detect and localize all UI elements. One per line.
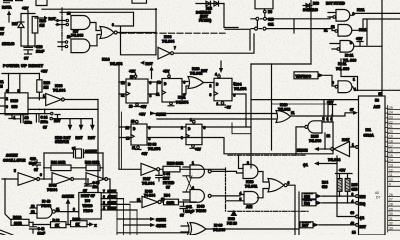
svg-text:OSCILLATOR: OSCILLATOR <box>3 159 26 163</box>
svg-text:IC14: IC14 <box>102 58 109 62</box>
svg-text:IC16: IC16 <box>11 99 18 103</box>
wire or out <box>204 82 215 84</box>
wire vertical x311 <box>310 0 312 64</box>
svg-text:1M: 1M <box>40 24 45 28</box>
flip-flop IC14/2 <box>126 79 148 103</box>
wire vertical bus x119 <box>118 66 120 169</box>
inverter IC37 mirrored <box>334 142 350 157</box>
svg-text:6: 6 <box>6 105 8 109</box>
svg-text:28: 28 <box>389 203 393 207</box>
svg-text:3k3: 3k3 <box>322 185 328 189</box>
corner shape bottom-left <box>0 230 13 235</box>
nand-gate IC21b <box>338 25 352 37</box>
wire caps rail <box>0 113 50 115</box>
node KBD RST arrows <box>70 119 92 126</box>
capacitor C42 <box>30 222 37 233</box>
svg-text:555: 555 <box>12 105 18 109</box>
svg-text:IC6: IC6 <box>85 199 90 203</box>
svg-text:38: 38 <box>379 92 383 96</box>
inverter IC43b <box>52 173 71 186</box>
nor-gate IC28out <box>268 179 284 192</box>
svg-text:R94: R94 <box>164 194 170 198</box>
cpu right pin rows <box>385 108 388 161</box>
svg-text:100n: 100n <box>41 120 48 124</box>
label RST row1 <box>140 61 145 65</box>
svg-text:25: 25 <box>389 106 393 110</box>
svg-text:14: 14 <box>389 159 393 163</box>
svg-text:14: 14 <box>352 231 356 235</box>
svg-text:3: 3 <box>181 136 183 140</box>
svg-text:1: 1 <box>217 102 219 106</box>
svg-text:+5V: +5V <box>142 152 149 156</box>
svg-text:2MHZ: 2MHZ <box>108 201 117 205</box>
wire S21 to gates <box>267 17 334 19</box>
svg-text:33: 33 <box>389 227 393 231</box>
svg-text:21: 21 <box>389 125 393 129</box>
wire nand out to vidproc box <box>55 211 79 213</box>
svg-text:74LS08: 74LS08 <box>71 34 83 38</box>
svg-text:9: 9 <box>389 183 391 187</box>
svg-text:RST: RST <box>146 62 154 66</box>
wire ff1-ff2 <box>148 82 162 94</box>
power rail 555 <box>2 73 39 75</box>
svg-text:+5V: +5V <box>139 113 146 117</box>
wire vertical from junction <box>155 9 157 55</box>
gate inputs arrows <box>56 21 66 25</box>
svg-text:4: 4 <box>352 200 354 204</box>
wire link vertical <box>224 4 238 28</box>
nor-gate IC14a <box>100 27 114 39</box>
svg-text:R85: R85 <box>352 183 358 187</box>
label VIDPROC <box>294 72 318 79</box>
svg-text:5: 5 <box>323 117 325 121</box>
wire and1 out <box>90 23 100 31</box>
wire nand4 out <box>341 59 400 90</box>
wire inverter out to link <box>174 34 255 53</box>
svg-text:29: 29 <box>389 207 393 211</box>
wire nand1 out <box>351 13 400 15</box>
wire long bus y99.6 <box>251 99 358 101</box>
svg-text:IC1: IC1 <box>366 128 372 132</box>
wire nand3 out <box>355 45 383 47</box>
nand-gate IC21c <box>340 41 354 53</box>
wire bottom long <box>117 232 189 234</box>
svg-text:6: 6 <box>40 173 42 177</box>
timer IC16 555 <box>9 74 20 93</box>
node 8MHZ 4MHZ arrows <box>117 219 150 225</box>
wire mhz verticals <box>117 193 137 235</box>
svg-text:10: 10 <box>131 120 135 124</box>
capacitor C41 <box>183 201 185 203</box>
svg-text:FITTED): FITTED) <box>199 19 211 23</box>
svg-text:1: 1 <box>353 78 355 82</box>
svg-text:IC25: IC25 <box>311 135 318 139</box>
svg-text:R126 100R: R126 100R <box>167 162 184 166</box>
svg-text:16MHZ: 16MHZ <box>62 195 75 199</box>
svg-text:RST: RST <box>201 69 207 73</box>
svg-text:11: 11 <box>137 198 141 202</box>
svg-text:74S04: 74S04 <box>47 188 57 192</box>
wire inverter out left NMCE <box>319 148 331 150</box>
inverter row3 <box>141 163 157 175</box>
svg-text:M: M <box>0 85 3 89</box>
svg-text:NT: NT <box>0 27 4 31</box>
svg-text:3: 3 <box>210 93 212 97</box>
link pins RST <box>51 112 53 114</box>
svg-text:IC40: IC40 <box>197 205 204 209</box>
svg-text:FITTED: FITTED <box>163 181 175 185</box>
svg-text:IC29: IC29 <box>280 103 287 107</box>
svg-text:3K3: 3K3 <box>352 188 358 192</box>
svg-text:NMI: NMI <box>360 195 366 199</box>
svg-text:+5V: +5V <box>339 169 346 173</box>
svg-text:S20: S20 <box>268 18 274 22</box>
svg-text:74LS04: 74LS04 <box>328 158 340 162</box>
svg-text:8: 8 <box>73 208 75 212</box>
svg-text:VIDPROC: VIDPROC <box>296 74 312 78</box>
wire feedback via R102 <box>5 179 11 220</box>
xor-gate IC36 <box>188 223 207 236</box>
wire node <box>21 45 35 47</box>
node RST cpu <box>300 222 313 228</box>
svg-text:10: 10 <box>130 75 134 79</box>
svg-text:R31 820R: R31 820R <box>51 161 66 165</box>
svg-text:1MHZ: 1MHZ <box>156 113 167 117</box>
ground 0V <box>25 53 32 55</box>
svg-text:NOT: NOT <box>163 177 170 181</box>
node NMI <box>302 193 316 199</box>
svg-text:74LS74: 74LS74 <box>176 101 188 105</box>
svg-text:IRQ: IRQ <box>304 202 310 206</box>
svg-text:NOT FITTED: NOT FITTED <box>326 2 345 6</box>
nand-gate IC25 74LS30 mirrored <box>308 121 322 133</box>
svg-text:IC31: IC31 <box>178 96 185 100</box>
svg-text:100R: 100R <box>167 201 175 205</box>
inverter IC33a <box>46 94 62 106</box>
wire or2 out to cpu pin37 <box>291 113 354 116</box>
keyboard box outline <box>60 12 134 26</box>
wire ff3 out <box>232 94 246 127</box>
svg-text:1MHZ: 1MHZ <box>108 207 117 211</box>
svg-text:IC33: IC33 <box>164 35 171 39</box>
node 1MHZ arrow <box>150 111 156 115</box>
wire vertical right <box>381 0 383 96</box>
svg-text:RST: RST <box>360 225 366 229</box>
svg-text:VIDEO: VIDEO <box>83 204 93 208</box>
svg-text:19pF: 19pF <box>38 232 45 236</box>
ground ff2 <box>170 102 173 105</box>
and-gate IC7a <box>71 16 90 30</box>
inverter IC43a <box>18 173 37 186</box>
wire keyboard box corner <box>225 29 250 50</box>
wire box top feed <box>97 188 99 193</box>
svg-text:40: 40 <box>351 222 355 226</box>
svg-text:D17: D17 <box>12 22 18 26</box>
connector box S-links top <box>255 0 273 9</box>
cpu IC1 6502A box <box>359 96 386 235</box>
svg-text:2: 2 <box>247 161 249 165</box>
svg-text:1: 1 <box>352 143 354 147</box>
wire row1 to or-gate lines <box>152 113 276 115</box>
svg-text:11: 11 <box>56 208 60 212</box>
capacitor C44 <box>156 172 162 181</box>
svg-text:16: 16 <box>389 149 393 153</box>
svg-text:5: 5 <box>14 169 16 173</box>
svg-text:5: 5 <box>103 201 105 205</box>
svg-text:3: 3 <box>350 41 352 45</box>
svg-text:16MHZ: 16MHZ <box>6 154 18 158</box>
svg-text:10: 10 <box>389 178 393 182</box>
videoproc box <box>79 193 101 220</box>
svg-text:74LS04: 74LS04 <box>142 182 154 186</box>
svg-text:RST: RST <box>49 17 57 21</box>
svg-text:IC 30: IC 30 <box>148 143 156 147</box>
wire ff5 out <box>202 126 251 128</box>
svg-text:2: 2 <box>210 84 212 88</box>
svg-text:31: 31 <box>389 217 393 221</box>
svg-text:IRQ: IRQ <box>360 202 366 206</box>
svg-text:+5V: +5V <box>22 7 29 11</box>
svg-text:PROC: PROC <box>84 209 94 213</box>
svg-text:S21: S21 <box>268 23 274 27</box>
svg-text:5: 5 <box>332 81 334 85</box>
svg-text:PIN 10: PIN 10 <box>227 222 237 226</box>
svg-text:74LS74: 74LS74 <box>148 147 160 151</box>
wire nand2 out <box>353 19 400 30</box>
svg-text:C13: C13 <box>30 157 36 161</box>
svg-text:D5: D5 <box>268 10 272 14</box>
svg-text:RST: RST <box>54 119 60 123</box>
connector box top edge mid <box>132 0 147 3</box>
svg-text:R13: R13 <box>44 81 50 85</box>
svg-text:8: 8 <box>112 23 114 27</box>
wire ff2 out to or <box>182 82 188 95</box>
wire nor out down <box>287 185 295 235</box>
svg-text:1M: 1M <box>44 86 49 90</box>
diode D11 D12 pair <box>196 3 224 5</box>
wire vertical RST bus <box>97 100 99 193</box>
capacitor C10 <box>24 46 33 54</box>
svg-text:15: 15 <box>389 154 393 158</box>
wire feedback left <box>2 178 18 180</box>
wire rst arrows feed <box>52 118 92 120</box>
flip-flop IC30b <box>193 120 196 123</box>
wire ff1 inputs <box>119 82 126 94</box>
section divider dash-dot vertical <box>61 8 63 50</box>
svg-text:SWITCH: SWITCH <box>55 140 69 144</box>
svg-text:27: 27 <box>389 198 393 202</box>
wire 555 out <box>28 97 46 99</box>
resistor R13 <box>37 80 42 92</box>
svg-text:8: 8 <box>150 94 152 98</box>
pin labels 8-1MHZ <box>101 193 137 210</box>
svg-text:12: 12 <box>31 210 35 214</box>
and-gate IC7b <box>71 39 90 53</box>
svg-text:17: 17 <box>389 144 393 148</box>
wire nor out <box>117 32 156 34</box>
and-gate IC28b <box>244 192 258 205</box>
svg-text:13: 13 <box>129 105 133 109</box>
svg-text:1: 1 <box>190 118 192 122</box>
svg-text:IC28: IC28 <box>192 67 199 71</box>
and-gate IC28a <box>243 165 258 179</box>
capacitor C24 <box>36 114 39 122</box>
svg-text:1: 1 <box>327 117 329 121</box>
svg-text:1N4148: 1N4148 <box>2 42 14 46</box>
wire S21 branch to divider <box>293 19 295 33</box>
wire inverter out <box>64 99 98 101</box>
diode D17 <box>20 14 22 47</box>
svg-text:74LS74: 74LS74 <box>234 87 246 91</box>
resistor R20 <box>32 17 38 34</box>
svg-text:74LS51: 74LS51 <box>245 185 257 189</box>
top edge text fragments <box>3 0 23 3</box>
svg-text:74S00: 74S00 <box>196 209 206 213</box>
svg-text:13: 13 <box>67 12 71 16</box>
svg-text:+5V: +5V <box>41 70 48 74</box>
wire cross coupling <box>186 176 192 192</box>
svg-text:IC34: IC34 <box>234 83 241 87</box>
svg-text:POWER UP RESET: POWER UP RESET <box>3 63 44 68</box>
svg-text:21: 21 <box>0 80 4 84</box>
svg-text:D13: D13 <box>313 2 319 6</box>
connector box top edge left <box>36 0 47 6</box>
svg-text:11: 11 <box>156 93 160 97</box>
svg-text:4MHZ: 4MHZ <box>108 195 117 199</box>
inverter IC43c <box>86 173 105 186</box>
svg-text:RST: RST <box>88 136 96 140</box>
node IRQ <box>302 200 316 206</box>
svg-text:10: 10 <box>67 35 71 39</box>
svg-text:23: 23 <box>389 116 393 120</box>
wire stub x232 <box>232 123 251 134</box>
wire 555 pin right <box>28 108 98 110</box>
svg-text:AIN: AIN <box>246 205 253 209</box>
svg-text:8MHZ: 8MHZ <box>108 189 117 193</box>
svg-text:RST: RST <box>76 136 84 140</box>
svg-text:ϕ2: ϕ2 <box>360 216 365 220</box>
wire ic25 input verticals <box>322 100 333 122</box>
svg-text:74LS04: 74LS04 <box>53 89 65 93</box>
svg-text:IC37: IC37 <box>342 138 349 142</box>
wire long verticals <box>250 64 252 168</box>
wire osc nodes <box>44 153 103 179</box>
wire bottom rail <box>33 224 89 226</box>
svg-text:8MHZ: 8MHZ <box>156 218 167 222</box>
svg-text:R20: R20 <box>40 19 46 23</box>
node RST arrow <box>35 17 44 19</box>
dash divider horizontal <box>120 32 225 34</box>
svg-text:39: 39 <box>351 211 355 215</box>
svg-text:−5V: −5V <box>225 106 232 110</box>
svg-text:20: 20 <box>389 130 393 134</box>
svg-text:32: 32 <box>389 222 393 226</box>
svg-text:11: 11 <box>291 111 295 115</box>
svg-text:12: 12 <box>331 25 335 29</box>
diode D13 <box>303 4 312 8</box>
svg-text:0V: 0V <box>24 57 29 61</box>
flip-flop IC31 <box>162 79 182 103</box>
svg-text:IC 21: IC 21 <box>338 62 346 66</box>
svg-text:IC21: IC21 <box>357 8 364 12</box>
svg-text:R32 820R: R32 820R <box>85 161 100 165</box>
wire RSTA arrow up <box>8 14 10 22</box>
svg-text:+5V: +5V <box>195 148 202 152</box>
svg-text:74 S04: 74 S04 <box>144 194 155 198</box>
svg-text:4: 4 <box>215 73 217 77</box>
svg-text:R84: R84 <box>322 181 328 185</box>
svg-text:100n: 100n <box>25 121 32 125</box>
svg-text:C 24: C 24 <box>41 116 48 120</box>
svg-text:74LS30: 74LS30 <box>309 139 321 143</box>
svg-text:2: 2 <box>331 117 333 121</box>
svg-text:12: 12 <box>327 134 331 138</box>
svg-text:2: 2 <box>6 97 8 101</box>
cpu right pin column numbers <box>388 106 400 233</box>
svg-text:100R: 100R <box>14 222 22 226</box>
svg-text:+5V: +5V <box>356 37 363 41</box>
svg-text:6: 6 <box>288 181 290 185</box>
svg-text:NMI: NMI <box>304 195 310 199</box>
svg-text:1K: 1K <box>55 224 60 228</box>
svg-text:RST: RST <box>302 224 308 228</box>
dash-dot bottom <box>228 210 308 212</box>
svg-text:x: x <box>95 224 97 228</box>
svg-text:IC 40: IC 40 <box>42 200 50 204</box>
svg-text:C 42: C 42 <box>38 227 45 231</box>
svg-text:11: 11 <box>324 29 328 33</box>
wire ff4 outs <box>147 126 186 128</box>
svg-text:1: 1 <box>43 94 45 98</box>
svg-text:24: 24 <box>389 111 393 115</box>
wire ic25 out <box>296 127 305 155</box>
wire +5V rail <box>22 11 35 47</box>
svg-text:220pF: 220pF <box>185 210 194 214</box>
svg-text:74LS74: 74LS74 <box>110 62 122 66</box>
capacitor C8 <box>14 115 27 123</box>
svg-text:C41: C41 <box>186 205 192 209</box>
svg-text:IC39: IC39 <box>228 217 235 221</box>
svg-text:NMCE: NMCE <box>297 149 308 153</box>
svg-text:1: 1 <box>192 161 194 165</box>
wire cpu phi to inverter <box>356 146 359 149</box>
junction <box>155 8 157 10</box>
svg-text:2: 2 <box>181 126 183 130</box>
sr latch nand A <box>190 165 204 178</box>
dash-dot row3 <box>228 154 305 156</box>
svg-text:A15: A15 <box>374 105 380 109</box>
svg-text:18: 18 <box>389 140 393 144</box>
svg-text:6502A: 6502A <box>364 134 375 138</box>
switch S21 <box>251 18 256 20</box>
wire and2 out <box>90 35 100 46</box>
wire and to nor <box>258 172 269 198</box>
wire top horizontal bus <box>42 8 156 10</box>
svg-text:IC33: IC33 <box>55 84 62 88</box>
svg-text:74LS04: 74LS04 <box>162 40 174 44</box>
svg-text:IC17: IC17 <box>143 177 150 181</box>
wire vidproc to nand4 <box>324 75 335 86</box>
svg-text:C 44: C 44 <box>163 172 170 176</box>
flip-flop IC34 <box>218 75 221 78</box>
svg-text:IC28: IC28 <box>246 180 253 184</box>
nand-gate IC21d <box>338 81 352 93</box>
svg-text:7: 7 <box>103 189 105 193</box>
svg-text:74L S00: 74L S00 <box>336 67 349 71</box>
svg-text:7: 7 <box>174 46 176 50</box>
svg-text:19: 19 <box>389 135 393 139</box>
svg-text:ϕ1: ϕ1 <box>303 163 308 167</box>
